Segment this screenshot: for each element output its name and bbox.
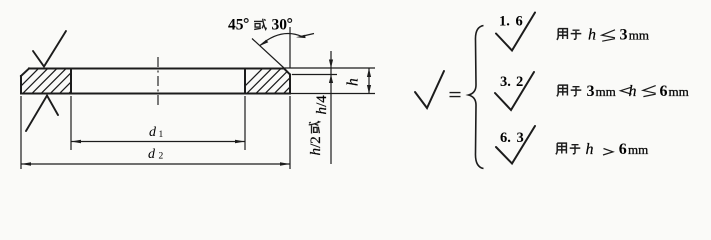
svg-text:6: 6	[619, 141, 627, 158]
svg-text:mm: mm	[596, 84, 616, 99]
svg-text:mm: mm	[669, 84, 689, 99]
svg-text:2: 2	[516, 74, 523, 90]
svg-text:3: 3	[587, 83, 595, 100]
svg-text:30: 30	[272, 17, 288, 34]
svg-text:d: d	[149, 125, 157, 140]
svg-text:/4: /4	[314, 95, 330, 107]
svg-text:h: h	[308, 148, 324, 156]
svg-text:3: 3	[517, 130, 524, 146]
svg-text:d: d	[148, 147, 156, 162]
svg-text:6.: 6.	[500, 130, 511, 146]
svg-text:/2: /2	[308, 136, 324, 148]
svg-text:2: 2	[159, 152, 164, 162]
svg-text:h: h	[588, 27, 596, 44]
svg-text:h: h	[629, 83, 637, 100]
svg-text:3: 3	[620, 27, 628, 44]
svg-text:h: h	[586, 141, 594, 158]
svg-text:45: 45	[228, 17, 244, 34]
svg-text:mm: mm	[629, 28, 649, 43]
svg-text:6: 6	[516, 14, 523, 30]
svg-text:1: 1	[159, 130, 164, 140]
svg-text:1.: 1.	[499, 14, 510, 30]
svg-text:h: h	[314, 107, 330, 115]
svg-text:h: h	[345, 78, 362, 86]
svg-text:mm: mm	[628, 142, 648, 157]
svg-text:6: 6	[660, 83, 668, 100]
svg-text:3.: 3.	[500, 74, 511, 90]
